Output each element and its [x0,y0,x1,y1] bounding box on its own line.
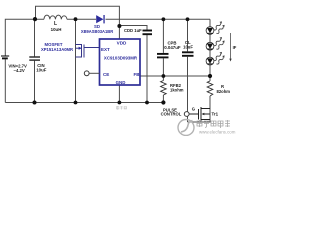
svg-text:10uF: 10uF [183,44,193,49]
wire CDD lower lead to ground rail [146,35,148,103]
wire FB net horizontal [140,75,210,77]
node RFB2 bottom junction [161,100,165,104]
svg-text:10uF: 10uF [36,68,46,73]
wire top rail left: battery corner to L junction [5,19,44,55]
transistor Q1 MOSFET (external switch) [76,45,100,58]
node GND pin junction [118,101,122,105]
wire Tr1 source to output ground segment [188,109,211,123]
node MOSFET source junction [74,101,78,105]
LED D3 [206,52,225,65]
svg-text:VDD: VDD [117,41,127,46]
wire FB junction to resistor R [209,76,211,81]
transistor Tr1 N-MOSFET [189,107,210,121]
watermark: elecfans logo swirl (decorative) [178,120,194,136]
wire LED1-LED2 [209,34,211,42]
wire battery lower lead [4,59,6,102]
wire CIN lower lead [34,61,36,103]
wire VDD bypass from VIN node over to VDD pin [36,6,120,39]
node CL top junction [186,17,190,21]
inductor L1 coil [44,15,67,19]
wire LED3 to FB junction [209,65,211,76]
node L/drain junction [74,17,78,21]
watermark small [117,106,127,110]
svg-text:1kohm: 1kohm [170,88,184,93]
resistor RFB2 [161,81,167,96]
node CPB top junction [162,17,166,21]
capacitor CDD [143,31,153,35]
diode SD (schottky) [96,15,105,23]
svg-text:XB9ASB03A1BR: XB9ASB03A1BR [81,29,113,34]
battery BT1 [1,56,9,58]
node FB/RFB2 junction [162,74,166,78]
watermark CJK glyph blocks [197,120,230,128]
svg-text:www.elecfans.com: www.elecfans.com [199,130,236,135]
capacitor CL [182,52,194,56]
svg-text:EXT: EXT [101,47,110,52]
capacitor CPB [157,54,169,58]
svg-text:0.047uF: 0.047uF [164,45,181,50]
svg-text:G: G [192,106,195,111]
svg-text:CE: CE [103,72,109,77]
wire CIN upper lead [34,19,36,56]
op-amp U1 XC9103 controller box [100,39,141,85]
node CDD bottom junction [145,101,149,105]
svg-text:82ohm: 82ohm [217,89,231,94]
node VDD/CDD junction [117,24,121,28]
svg-text:XC9103D093MR: XC9103D093MR [104,55,138,60]
wire GND pin lead [118,85,120,103]
node CE terminal [84,71,89,76]
LED D2 [206,37,225,50]
node LED string / FB junction [208,74,212,78]
wire CE lead [89,72,99,74]
node VIN junction [33,17,37,21]
wire LED string top lead [209,19,211,26]
node gate terminal circle [184,112,189,117]
wire CPB lower lead to FB node [162,58,164,80]
svg-text:XP151A13A0MR: XP151A13A0MR [41,47,73,52]
wire top rail: diode cathode to LED corner [106,18,211,20]
svg-text:~4.2V: ~4.2V [13,68,24,73]
svg-text:CONTROL: CONTROL [161,112,182,117]
wire MOSFET drain/source vertical [75,19,77,102]
svg-text:IF: IF [233,45,237,50]
svg-text:GND: GND [116,80,126,85]
node IF current arrow [230,33,232,59]
LED D1 [206,21,225,34]
wire CL lower lead to output ground segment [187,57,189,122]
wire top rail: L to diode anode [67,18,96,20]
svg-text:Tr1: Tr1 [212,111,219,116]
svg-text:CDD 1uF: CDD 1uF [124,28,142,33]
wire LED2-LED3 [209,50,211,57]
wire CPB upper lead from output rail [162,19,164,53]
wire RFB2 lower lead [162,95,164,103]
node CIN bottom junction [33,101,37,105]
wire CL upper lead [187,19,189,51]
wire R to Tr1 drain [209,96,211,109]
resistor R (82ohm) [207,81,213,96]
svg-text:FB: FB [134,72,141,77]
svg-text:10uH: 10uH [51,27,62,32]
wire ground rail [5,102,163,104]
capacitor CIN [29,57,40,60]
wire CDD branch [119,26,147,31]
